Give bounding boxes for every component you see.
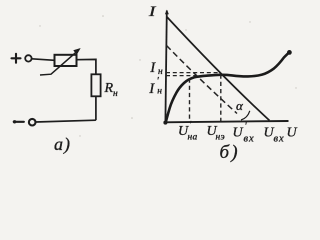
label RH bbox=[104, 81, 119, 99]
dashed drop line at U_ne bbox=[220, 75, 222, 121]
U axis (horizontal) bbox=[164, 121, 289, 122]
svg-text:I: I bbox=[148, 81, 155, 97]
svg-text:α: α bbox=[236, 98, 244, 113]
svg-text:н: н bbox=[157, 87, 162, 97]
svg-text:н: н bbox=[113, 89, 118, 99]
resistor RH body bbox=[91, 74, 100, 96]
I axis (vertical) bbox=[165, 11, 166, 123]
label I'_n bbox=[148, 76, 162, 97]
dashed level line I_n bbox=[166, 72, 221, 74]
svg-text:U: U bbox=[287, 126, 298, 141]
label U'_na bbox=[178, 120, 198, 143]
dashed drop line at U'_na bbox=[189, 79, 191, 122]
svg-text:I: I bbox=[148, 3, 157, 19]
svg-text:а): а) bbox=[54, 134, 71, 155]
svg-text:′: ′ bbox=[189, 120, 192, 130]
svg-text:нэ: нэ bbox=[216, 133, 226, 143]
svg-text:вх: вх bbox=[244, 134, 255, 145]
origin node dot bbox=[163, 121, 167, 125]
wire from RH down to bottom rail bbox=[95, 96, 97, 120]
plus terminal polarity mark bbox=[12, 54, 21, 63]
svg-text:′: ′ bbox=[245, 121, 248, 131]
label U_vx bbox=[264, 126, 285, 145]
I axis tip bbox=[165, 10, 169, 15]
scan speckles bbox=[39, 15, 296, 137]
wire from + terminal to rheostat bbox=[32, 59, 55, 61]
input terminal (-) circle bbox=[29, 119, 36, 126]
solid load line bbox=[167, 17, 270, 121]
rheostat adjustment arrow bbox=[40, 49, 80, 75]
svg-text:′: ′ bbox=[157, 76, 160, 87]
svg-text:I: I bbox=[149, 60, 156, 76]
wire from rheostat to top-right corner bbox=[77, 59, 96, 74]
label U_ne bbox=[207, 124, 226, 143]
dashed load line bbox=[167, 46, 238, 114]
label I_n bbox=[149, 60, 163, 77]
angle alpha arc bbox=[241, 111, 250, 120]
bottom wire to - terminal bbox=[36, 120, 96, 122]
svg-text:U: U bbox=[233, 126, 244, 141]
rheostat (variable resistor) body bbox=[55, 55, 77, 66]
curve end blob bbox=[287, 50, 292, 55]
minus terminal polarity mark bbox=[13, 120, 24, 123]
nonlinear characteristic curve bbox=[166, 52, 289, 122]
svg-text:б): б) bbox=[220, 142, 240, 163]
svg-text:R: R bbox=[104, 81, 114, 96]
svg-text:на: на bbox=[188, 133, 198, 143]
svg-text:вх: вх bbox=[274, 134, 285, 145]
label U'_vx bbox=[233, 121, 255, 145]
dashed level line I'_n bbox=[166, 75, 197, 77]
input terminal (+) circle bbox=[25, 55, 31, 61]
